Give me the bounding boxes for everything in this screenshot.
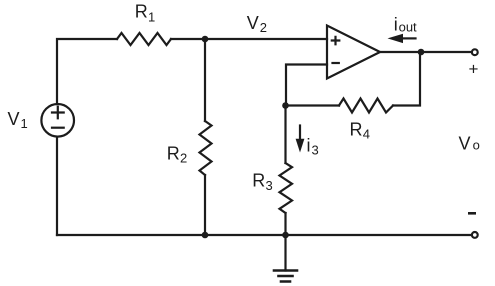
svg-text:3: 3 [266,178,273,193]
wire: feedback node down to R3 [284,106,286,164]
svg-text:1: 1 [148,9,155,24]
svg-text:R: R [167,144,180,164]
svg-text:R: R [135,2,148,22]
op-amp U1 noninverting (+) marker [332,37,340,45]
op-amp U1 body [327,26,380,79]
resistor R3 [280,163,293,213]
svg-text:V: V [459,133,471,153]
label R4 [350,120,370,142]
resistor R1 [117,33,171,45]
svg-text:2: 2 [180,151,187,166]
wire: bottom rail [57,234,472,236]
wire: op-amp output to + terminal [380,51,472,53]
arrow: i3 current direction [296,126,305,153]
label R3 [252,171,272,193]
arrow: iout current direction [388,34,416,43]
label V2 [247,13,267,35]
label - output polarity [468,212,476,215]
label R1 [135,2,155,25]
svg-text:1: 1 [21,116,28,131]
node V2 junction dot [202,36,209,43]
wire: V1 top lead up and across to R1 [57,39,117,104]
svg-text:V: V [8,109,20,129]
svg-text:+: + [469,60,479,79]
svg-text:V: V [247,13,259,33]
svg-text:R: R [252,171,265,191]
op-amp U1 inverting (-) marker [333,62,339,64]
svg-text:i: i [307,135,311,155]
wire: V1 bottom lead to bottom rail [56,137,58,235]
wire: node V2 down to R2 [204,39,206,121]
svg-text:i: i [394,14,398,34]
voltage source V1 circle [41,104,74,137]
voltage source V1 plus marker [52,107,64,119]
resistor R2 [200,121,212,175]
label + output polarity [469,60,479,79]
label Vo [459,133,480,153]
label iout [394,14,417,34]
label i3 [307,135,319,157]
wire: R1 to node V2 [171,38,205,40]
voltage source V1 minus marker [52,127,64,129]
wire: op-amp inverting input to feedback node [286,65,327,106]
svg-text:out: out [399,19,417,34]
label V1 [8,109,28,131]
svg-text:2: 2 [260,20,267,35]
svg-text:R: R [350,120,363,140]
svg-text:4: 4 [363,127,370,142]
ground [274,235,297,282]
node: feedback junction dot [282,102,289,109]
wire: feedback node to R4 [286,104,340,106]
node: bottom rail junction dot (R2) [202,232,209,239]
terminal: output negative [472,232,478,238]
label R2 [167,144,187,166]
wire: node V2 to op-amp noninverting input [205,38,327,40]
resistor R4 [339,99,393,113]
svg-text:o: o [473,138,480,153]
svg-text:3: 3 [312,143,319,158]
node: bottom rail junction dot (R3/ground) [282,232,289,239]
wire: R4 to output node [393,52,420,106]
wire: R3 to bottom rail [284,213,286,235]
node: output junction dot [418,49,425,56]
terminal: output positive [472,49,478,55]
wire: R2 to bottom rail [204,175,206,235]
